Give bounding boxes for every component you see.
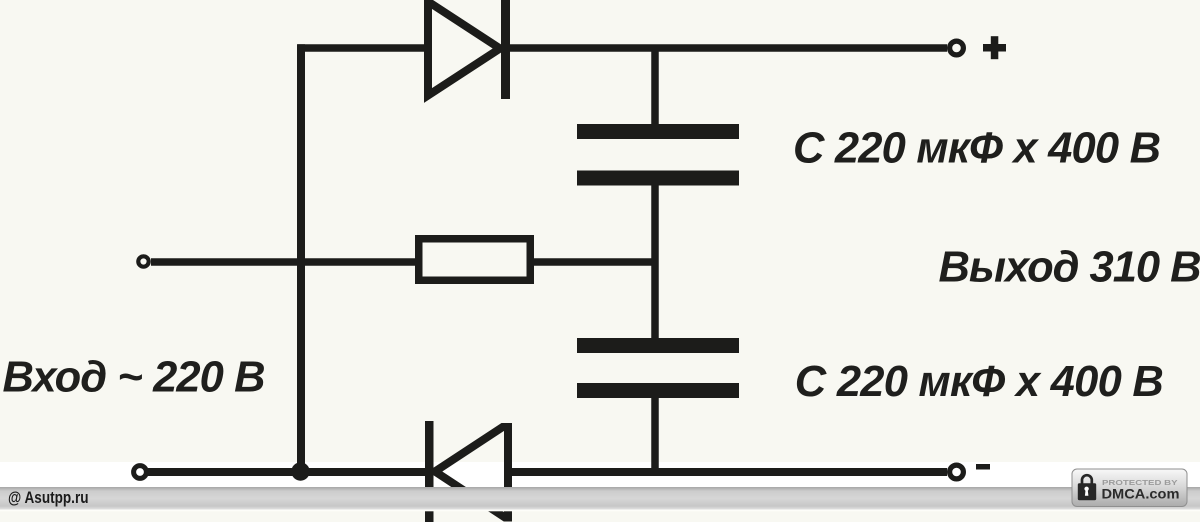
svg-text:С 220 мкФ х 400 В: С 220 мкФ х 400 В [793,125,1161,173]
terminal input middle (circle) [138,256,148,266]
wire left vertical (input to diode junction) [297,44,305,474]
svg-text:@ Asutpp.ru: @ Asutpp.ru [8,489,89,507]
wire top horizontal [298,44,948,52]
diode VD1 (top, pointing right) [428,0,510,99]
junction dot [291,462,309,480]
wire middle horizontal [151,258,655,266]
svg-text:Вход ~ 220 В: Вход ~ 220 В [3,353,266,401]
capacitor C2 (bottom) [577,338,739,398]
watermark bar [0,487,1200,510]
terminal - (bottom right circle) [950,465,964,479]
wire capacitor chain vertical [651,48,659,476]
resistor R1 [419,239,531,281]
svg-text:Выход 310 В: Выход 310 В [939,243,1200,291]
capacitor C1 (top) [577,124,739,186]
terminal input bottom (circle) [134,466,147,479]
wire bottom horizontal [148,468,947,476]
terminal + (top right circle) [950,41,964,55]
label + [983,36,1006,59]
svg-text:DMCA.com: DMCA.com [1102,487,1180,502]
svg-text:С 220 мкФ х 400 В: С 220 мкФ х 400 В [795,358,1164,406]
label - [976,464,990,470]
diode VD2 (bottom, pointing left) [425,421,508,522]
DMCA badge [1072,469,1187,507]
